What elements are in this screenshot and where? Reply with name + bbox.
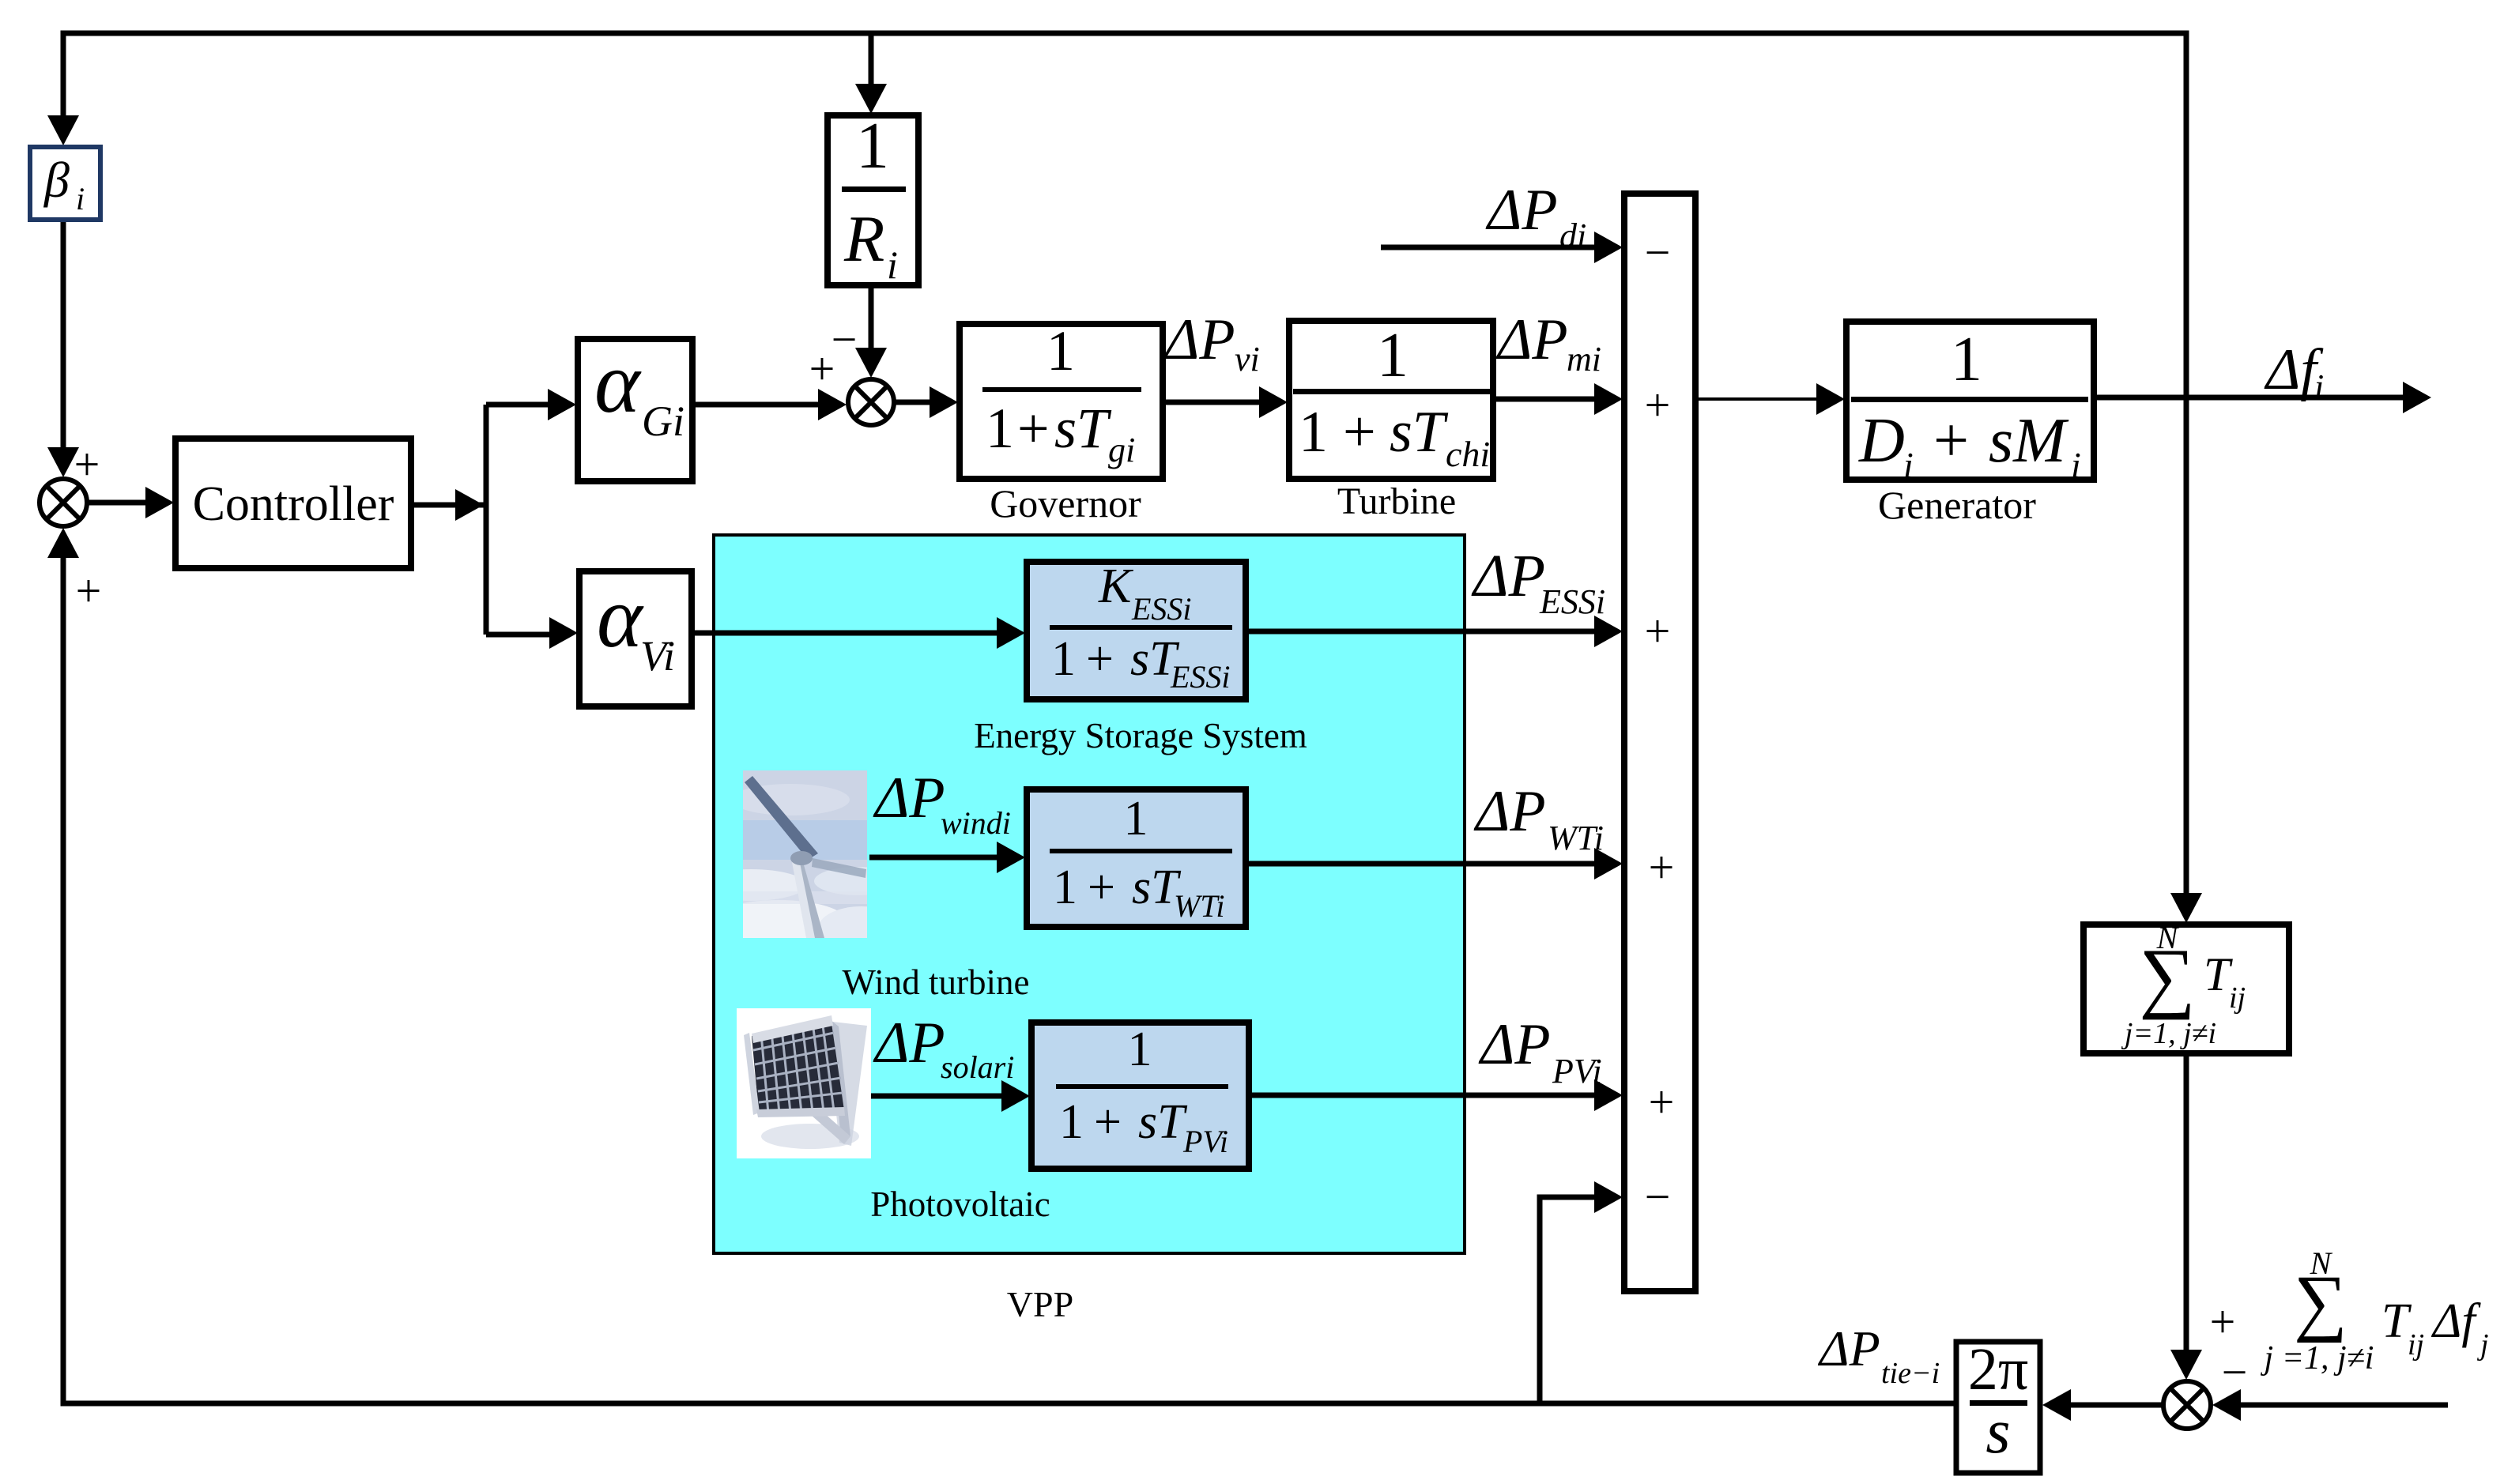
svg-text:Energy Storage System: Energy Storage System (974, 716, 1307, 755)
wind turbine photo (696, 770, 905, 951)
photovoltaic photo (737, 1008, 871, 1158)
svg-text:j=1, j≠i: j=1, j≠i (2121, 1017, 2216, 1050)
arrowhead into Sigma Tij block (2170, 893, 2202, 923)
arrowhead tie stub into summing rectangle (1594, 1181, 1623, 1213)
bottom tie-line summing junction (2163, 1381, 2211, 1429)
arrowhead PV row into summing rectangle (1594, 1079, 1623, 1111)
arrowhead into bottom junction from right (2212, 1389, 2241, 1421)
svg-text:ij: ij (2229, 981, 2246, 1015)
block Governor (960, 324, 1163, 479)
arrowhead into Controller (145, 487, 174, 518)
svg-text:PVi: PVi (1552, 1052, 1602, 1090)
svg-text:sT: sT (1390, 400, 1449, 465)
wire Controller output with branch to alpha_Gi and alpha_Vi (411, 405, 552, 635)
svg-text:ΔP: ΔP (1485, 178, 1558, 243)
svg-text:windi: windi (941, 805, 1011, 841)
ACE summing junction (40, 479, 87, 526)
svg-text:tie−i: tie−i (1881, 1357, 1940, 1390)
svg-text:j =1, j≠i: j =1, j≠i (2261, 1340, 2374, 1377)
svg-text:1: 1 (856, 109, 889, 183)
arrowhead rectangle output into Generator (1816, 383, 1845, 415)
svg-text:+: + (1017, 397, 1050, 460)
governor summing junction (848, 379, 894, 425)
svg-text:ΔP: ΔP (1495, 307, 1568, 372)
arrowhead Delta f_i output (2403, 382, 2431, 413)
svg-text:VPP: VPP (1007, 1284, 1073, 1324)
wire PV block to summing rectangle (1248, 1093, 1597, 1098)
svg-text:1: 1 (1128, 1023, 1152, 1076)
arrowhead into bottom junction from top (2170, 1350, 2202, 1380)
svg-text:∑: ∑ (2139, 932, 2195, 1020)
svg-text:ΔP: ΔP (1817, 1320, 1880, 1377)
wire alpha_Vi to ESS block (692, 631, 1000, 636)
block PV transfer function (1031, 1023, 1249, 1169)
svg-text:+: + (1645, 605, 1671, 657)
block ESS transfer function (1027, 562, 1246, 699)
svg-text:−: − (1645, 1171, 1671, 1222)
svg-text:di: di (1559, 217, 1586, 255)
svg-text:s: s (1985, 1397, 2010, 1467)
svg-text:−: − (2222, 1347, 2248, 1398)
block Generator (1846, 322, 2094, 480)
arrowhead into WT block (997, 842, 1025, 873)
svg-text:α: α (594, 334, 642, 431)
svg-text:Controller: Controller (193, 477, 394, 531)
wire tie-line sum input from right (2238, 1403, 2448, 1408)
arrowhead controller output branch (455, 489, 484, 521)
svg-text:R: R (843, 202, 884, 276)
arrowhead into beta_i (47, 115, 79, 145)
svg-text:i: i (76, 181, 85, 217)
svg-text:Gi: Gi (642, 397, 684, 445)
svg-text:1: 1 (1053, 861, 1077, 914)
arrowhead into PV block (1001, 1080, 1030, 1112)
svg-text:+: + (1086, 632, 1114, 686)
svg-text:+: + (1088, 861, 1115, 914)
svg-text:ESSi: ESSi (1170, 659, 1231, 695)
block Sigma Tij (2084, 925, 2289, 1053)
svg-text:ΔP: ΔP (1471, 543, 1545, 609)
svg-text:Generator: Generator (1878, 483, 2036, 527)
svg-text:mi: mi (1567, 340, 1601, 379)
wire Delta P_di load disturbance input (1381, 245, 1597, 250)
wire Generator output Delta f_i (2094, 395, 2403, 401)
block 1/Ri (828, 115, 918, 285)
svg-text:chi: chi (1446, 434, 1490, 474)
wire Sigma Tij block to bottom summing junction (2184, 1053, 2189, 1353)
svg-text:1: 1 (1124, 792, 1148, 846)
arrowhead into governor junction from top (855, 348, 887, 378)
svg-text:Turbine: Turbine (1337, 480, 1456, 522)
svg-text:ΔP: ΔP (873, 1011, 945, 1075)
svg-text:+: + (74, 439, 100, 490)
wire Turbine to summing rectangle (1493, 397, 1597, 402)
svg-text:sT: sT (1054, 397, 1112, 460)
svg-text:+: + (2210, 1296, 2236, 1347)
arrowhead into alpha_Vi (549, 617, 578, 649)
arrowhead into Governor block (930, 386, 958, 418)
block Turbine (1289, 321, 1493, 479)
svg-text:1: 1 (1051, 632, 1076, 686)
svg-text:2π: 2π (1968, 1336, 2028, 1403)
arrowhead into alpha_Gi (548, 389, 576, 420)
svg-text:+: + (1933, 406, 1969, 476)
svg-text:Wind turbine: Wind turbine (843, 962, 1030, 1002)
block WT transfer function (1027, 789, 1246, 927)
wire solar image to PV block (870, 1094, 1005, 1099)
svg-text:α: α (597, 569, 644, 665)
VPP cyan container box (714, 535, 1465, 1253)
wire right feedback down to Sigma Tij block (2184, 397, 2189, 896)
arrowhead into governor junction from left (818, 389, 847, 420)
svg-text:1: 1 (986, 397, 1014, 460)
svg-text:ESSi: ESSi (1131, 591, 1192, 627)
svg-text:Governor: Governor (990, 481, 1141, 525)
svg-text:+: + (1649, 842, 1675, 893)
svg-text:+: + (76, 565, 102, 616)
wire ESS block to summing rectangle (1245, 629, 1597, 635)
svg-text:j: j (2476, 1328, 2489, 1362)
block alpha_Gi (578, 339, 692, 481)
arrowhead Delta P_di into summing rectangle (1594, 232, 1623, 263)
wire WT block to summing rectangle (1245, 861, 1597, 867)
svg-text:ΔP: ΔP (873, 766, 945, 831)
wire rectangle output to Generator (thin) (1695, 397, 1820, 401)
wire alpha_Gi to governor summing junction (692, 402, 820, 408)
wire 2pi/s output long bottom feedback to ACE junction (63, 555, 1956, 1403)
arrowhead into 2pi/s block (2042, 1389, 2071, 1421)
block 2pi/s (1956, 1342, 2040, 1473)
svg-text:+: + (1645, 379, 1671, 431)
svg-text:Δf: Δf (2430, 1294, 2481, 1348)
wire wind image to WT block (869, 855, 1000, 861)
arrowhead into 1/Ri (855, 84, 887, 114)
svg-text:1: 1 (1299, 400, 1328, 465)
svg-text:i: i (2314, 367, 2324, 406)
svg-text:K: K (1098, 559, 1134, 613)
wire top feedback: output junction up, across top, down to beta_i (63, 33, 2186, 399)
wire governor junction to Governor block (894, 400, 933, 405)
svg-text:D: D (1858, 406, 1905, 476)
svg-text:PVi: PVi (1182, 1124, 1228, 1159)
block beta_i (30, 147, 100, 220)
svg-text:i: i (887, 243, 898, 287)
svg-text:gi: gi (1108, 431, 1135, 469)
svg-text:+: + (1649, 1076, 1675, 1128)
svg-text:i: i (2071, 445, 2081, 485)
svg-text:ΔP: ΔP (1163, 307, 1235, 372)
svg-text:Photovoltaic: Photovoltaic (870, 1185, 1050, 1224)
arrowhead into ESS block (997, 617, 1025, 649)
svg-text:1: 1 (1951, 325, 1982, 394)
summing rectangle (1624, 194, 1695, 1291)
svg-text:ij: ij (2408, 1328, 2424, 1362)
wire bottom junction to 2pi/s block (2069, 1403, 2163, 1408)
svg-text:Vi: Vi (640, 632, 675, 680)
svg-text:β: β (43, 152, 70, 208)
wire ACE junction to Controller (87, 500, 150, 506)
svg-text:1: 1 (1046, 319, 1075, 382)
wire beta_i to ACE summing junction (61, 220, 66, 450)
svg-text:vi: vi (1235, 340, 1260, 379)
block alpha_Vi (579, 571, 692, 706)
svg-text:−: − (1645, 227, 1671, 278)
svg-text:ΔP: ΔP (1478, 1012, 1551, 1077)
arrowhead into ACE junction from top (47, 447, 79, 477)
arrowhead WT row into summing rectangle (1594, 848, 1623, 879)
arrowhead into Turbine block (1259, 386, 1288, 418)
wire tie-line feedback stub into summing rectangle minus input (1540, 1197, 1597, 1403)
svg-text:1: 1 (1059, 1095, 1084, 1149)
svg-text:ΔP: ΔP (1473, 779, 1546, 844)
arrowhead turbine row into summing rectangle (1594, 383, 1623, 415)
svg-text:−: − (832, 314, 858, 365)
svg-text:WTi: WTi (1174, 888, 1224, 924)
wire 1/Ri down to governor summing junction (869, 285, 874, 352)
block Controller (175, 439, 411, 568)
wire Governor to Turbine (1163, 400, 1261, 405)
svg-text:i: i (1903, 445, 1914, 485)
svg-text:sT: sT (1138, 1095, 1188, 1149)
svg-text:ESSi: ESSi (1539, 582, 1605, 621)
svg-text:+: + (1094, 1095, 1122, 1149)
svg-text:solari: solari (941, 1049, 1014, 1085)
svg-text:+: + (1343, 400, 1376, 465)
arrowhead ESS row into summing rectangle (1594, 616, 1623, 647)
svg-text:1: 1 (1377, 321, 1408, 390)
arrowhead into ACE junction from bottom (47, 528, 79, 558)
wire branch top line to 1/Ri (869, 33, 874, 89)
svg-text:WTi: WTi (1548, 819, 1604, 857)
svg-text:∑: ∑ (2294, 1260, 2347, 1343)
svg-text:sM: sM (1989, 406, 2069, 476)
